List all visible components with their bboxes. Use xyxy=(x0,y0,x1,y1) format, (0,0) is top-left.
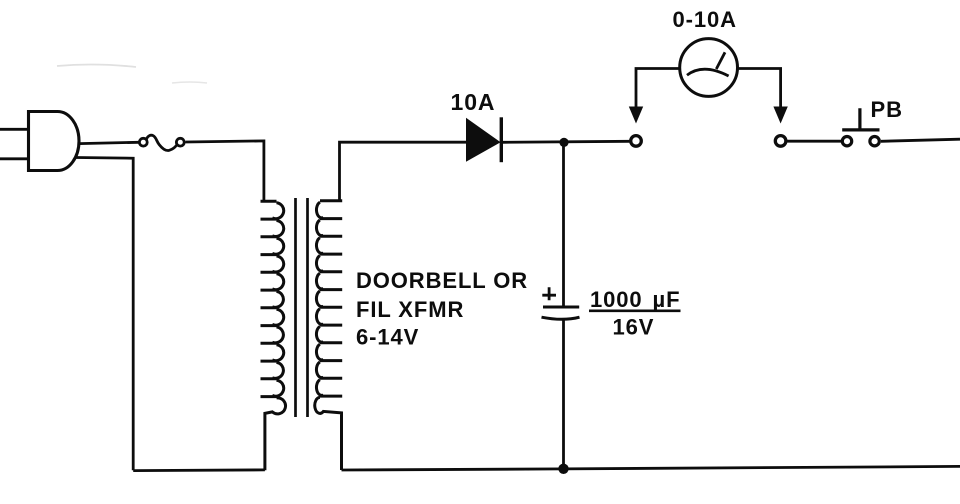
pushbutton PB contact (left) xyxy=(842,137,851,146)
fuse terminal circle (left) xyxy=(139,138,147,146)
ammeter right lead arrowhead xyxy=(773,107,787,124)
wire: capacitor bottom lead xyxy=(562,320,565,469)
AC plug prong (bottom) xyxy=(0,157,28,160)
ammeter M1 body xyxy=(680,39,738,97)
wire: ammeter right lead xyxy=(738,69,781,111)
AC plug prong (top) xyxy=(0,128,28,131)
ammeter left lead arrowhead xyxy=(629,107,643,124)
wire: meter terminal to pushbutton xyxy=(787,140,841,143)
terminal: meter insertion point (left) xyxy=(631,136,642,147)
fuse terminal circle (right) xyxy=(176,138,184,146)
transformer T1 secondary winding xyxy=(315,201,342,470)
label: DOORBELL OR FIL XFMR 6-14V xyxy=(356,268,528,349)
wire: bottom left return xyxy=(133,468,265,472)
wire: pushbutton to right edge xyxy=(881,139,960,141)
scan artifact smudge xyxy=(57,64,136,67)
node: capacitor/return junction xyxy=(558,464,568,474)
wire: fuse to transformer primary xyxy=(186,141,264,202)
capacitor C1 top plate xyxy=(543,306,579,309)
wire: ammeter left lead xyxy=(636,69,680,111)
svg-text:PB: PB xyxy=(871,97,903,122)
capacitor C1 curved plate xyxy=(542,317,580,319)
fuse element squiggle xyxy=(146,135,176,150)
node: diode/capacitor junction xyxy=(559,138,568,147)
transformer T1 primary winding xyxy=(261,201,286,470)
wire: bottom return to right edge xyxy=(342,466,960,470)
diode D1 (10A rectifier) xyxy=(466,117,501,162)
svg-text:DOORBELL OR: DOORBELL OR xyxy=(356,268,528,293)
label: 1000 uF / 16V value fraction xyxy=(589,287,681,339)
transformer T1 core xyxy=(296,198,308,417)
pushbutton PB actuator bar and stem xyxy=(842,108,879,130)
svg-text:0-10A: 0-10A xyxy=(673,7,737,32)
svg-text:16V: 16V xyxy=(613,314,655,339)
wire: plug to fuse xyxy=(79,142,139,143)
wire: secondary top lead xyxy=(340,142,467,201)
capacitor C1 plus sign xyxy=(542,287,556,300)
AC plug body xyxy=(29,112,80,171)
terminal: meter insertion point (right) xyxy=(775,136,786,147)
scan artifact smudge xyxy=(172,82,207,83)
wire: capacitor top lead xyxy=(562,142,565,305)
svg-text:10A: 10A xyxy=(451,89,496,115)
ammeter M1 face (scale arc + needle) xyxy=(687,52,729,76)
svg-text:1000 µF: 1000 µF xyxy=(590,287,680,312)
svg-text:FIL XFMR: FIL XFMR xyxy=(356,297,464,322)
svg-text:6-14V: 6-14V xyxy=(356,324,419,349)
pushbutton PB contact (right) xyxy=(870,137,879,146)
wire: diode to meter terminal xyxy=(503,141,629,142)
wire: plug bottom cord xyxy=(76,158,133,471)
